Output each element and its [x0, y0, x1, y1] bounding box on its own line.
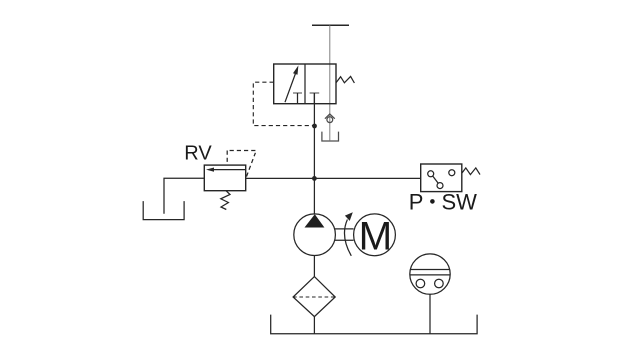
- tank symbol (RV drain): [143, 201, 184, 220]
- filter (strainer diamond): [293, 277, 335, 317]
- valve return spring: [336, 76, 354, 83]
- RV pilot line (dashed): [227, 151, 255, 177]
- valve left-position flow arrow: [285, 71, 296, 102]
- motor circle M: [354, 214, 396, 256]
- wire: filter to tank: [313, 317, 315, 334]
- svg-text:M: M: [359, 214, 393, 259]
- wire: valve port down to main line and pump: [313, 93, 315, 214]
- node: pilot junction dot: [312, 124, 317, 129]
- relief valve RV body: [204, 165, 245, 191]
- rotation direction arc arrow: [344, 220, 351, 256]
- node: main line junction dot: [312, 176, 317, 181]
- breather / filler cap: [410, 254, 450, 294]
- wire: pump to filter: [313, 255, 315, 276]
- solenoid valve body (2-position envelope): [274, 64, 336, 104]
- wire: top work-port bar: [312, 24, 349, 26]
- valve left-position blocked port T: [293, 92, 302, 94]
- RV internal flow arrow: [213, 169, 246, 171]
- pressure switch P-SW body: [421, 164, 462, 192]
- pilot line (dashed) from valve to node: [253, 82, 314, 125]
- svg-text:SW: SW: [442, 189, 478, 214]
- main reservoir tank: [271, 315, 477, 334]
- wire: breather to tank: [429, 294, 431, 334]
- svg-text:RV: RV: [184, 143, 212, 165]
- P-SW contacts: [428, 171, 434, 177]
- valve right-position blocked port T: [310, 92, 320, 94]
- check valve (seat and ball): [325, 114, 335, 119]
- pump triangle (flow direction): [305, 214, 325, 227]
- tank symbol (valve drain): [322, 132, 339, 141]
- wire: vertical line from top bar through valve to check valve: [329, 25, 331, 140]
- svg-text:P: P: [409, 189, 424, 214]
- wire: main pressure line: [246, 177, 421, 179]
- pump circle: [294, 214, 336, 256]
- P-SW spring: [462, 168, 480, 175]
- RV spring: [221, 191, 230, 210]
- wire: RV outlet to tank: [164, 178, 204, 214]
- drive shaft between pump and motor: [334, 228, 353, 230]
